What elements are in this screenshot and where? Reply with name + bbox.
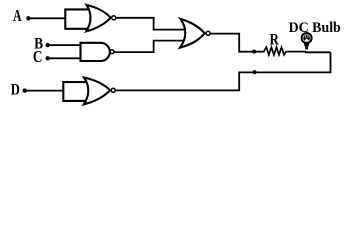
wire lamp rail between resistor and bulb: [286, 51, 306, 53]
node D input dot: [23, 88, 27, 92]
gate U2 output bubble: [110, 50, 114, 54]
gate U4 NOR OR-body: [84, 78, 110, 105]
svg-text:DC Bulb: DC Bulb: [289, 20, 341, 36]
gate U4 output bubble: [111, 88, 115, 92]
svg-text:R: R: [270, 31, 280, 49]
node junction dot J1 on lamp rail: [252, 50, 256, 54]
gate U1 NOR OR-body: [86, 5, 111, 31]
svg-text:A: A: [13, 6, 22, 25]
wire A input: [28, 17, 66, 19]
lamp DS1 bulb glass: [302, 33, 312, 43]
wire top gate output jogging down to middle gate top input: [117, 18, 197, 30]
wire C input: [48, 57, 81, 59]
lamp DS1 screw base: [304, 43, 310, 47]
lamp DS1 filament blob: [303, 35, 310, 42]
gate U3 output bubble: [206, 31, 210, 35]
wire NOR output down to lamp rail: [211, 34, 265, 52]
resistor R zigzag: [264, 47, 286, 55]
wire D input: [25, 90, 64, 92]
gate U1 output bubble: [112, 16, 116, 20]
svg-text:D: D: [11, 81, 20, 99]
gate U1 input box (A): [65, 9, 95, 28]
gate U4 input box (D): [63, 82, 94, 101]
gate U3 NOR body (middle): [180, 19, 205, 48]
wire B input: [48, 44, 81, 46]
node A input dot: [26, 16, 30, 20]
node C input dot: [46, 56, 50, 60]
node junction dot J2 on return rail: [253, 70, 257, 74]
gate U2 NAND body (B,C): [81, 43, 110, 61]
wire lamp rail right of bulb: [305, 51, 331, 53]
wire NAND output jogging up to middle gate bottom input: [115, 41, 194, 53]
svg-text:C: C: [33, 47, 43, 66]
wire right side down, bottom return, step down to D gate output: [116, 52, 331, 90]
node B input dot: [46, 43, 50, 47]
